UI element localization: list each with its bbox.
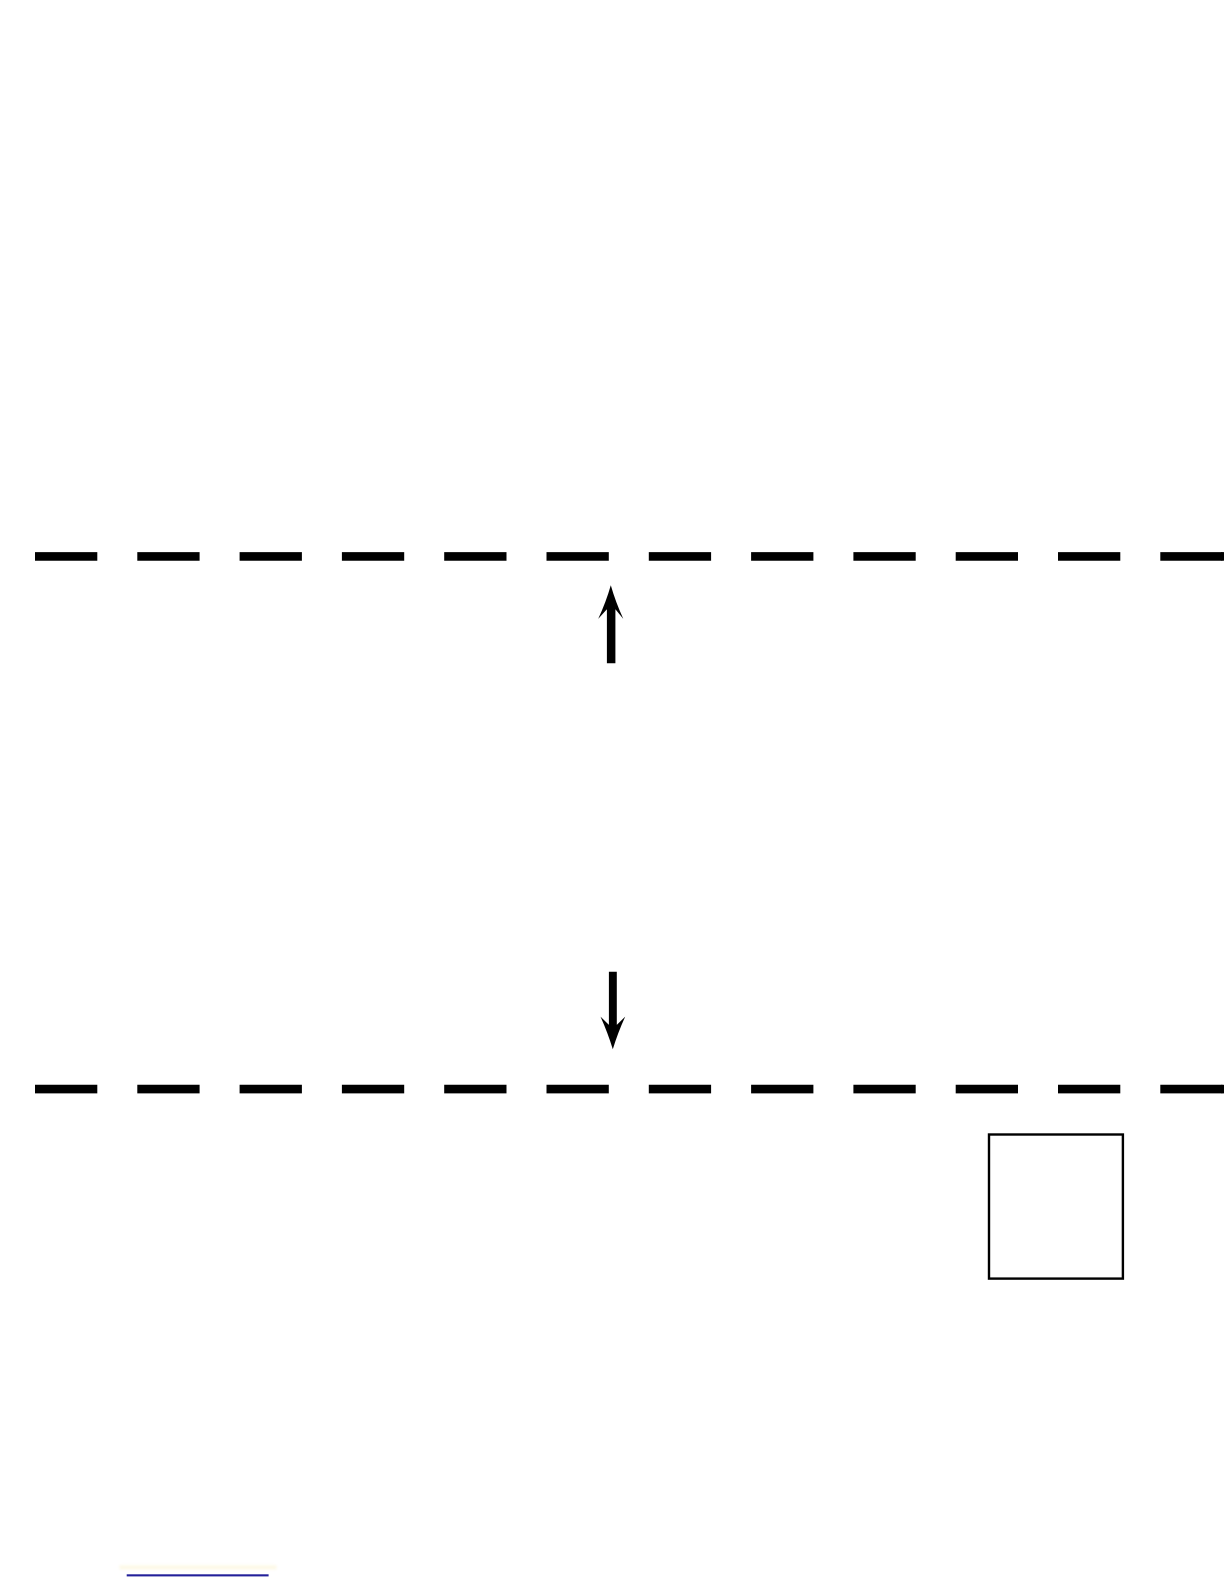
down arrow bbox=[601, 972, 626, 1050]
lower dashed fold line bbox=[35, 1085, 1224, 1094]
stamp box bbox=[989, 1135, 1123, 1279]
upper dashed fold line bbox=[35, 552, 1224, 561]
hyperlink underline bbox=[127, 1574, 269, 1576]
up arrow bbox=[598, 585, 623, 663]
faint highlight band bbox=[120, 1565, 277, 1569]
